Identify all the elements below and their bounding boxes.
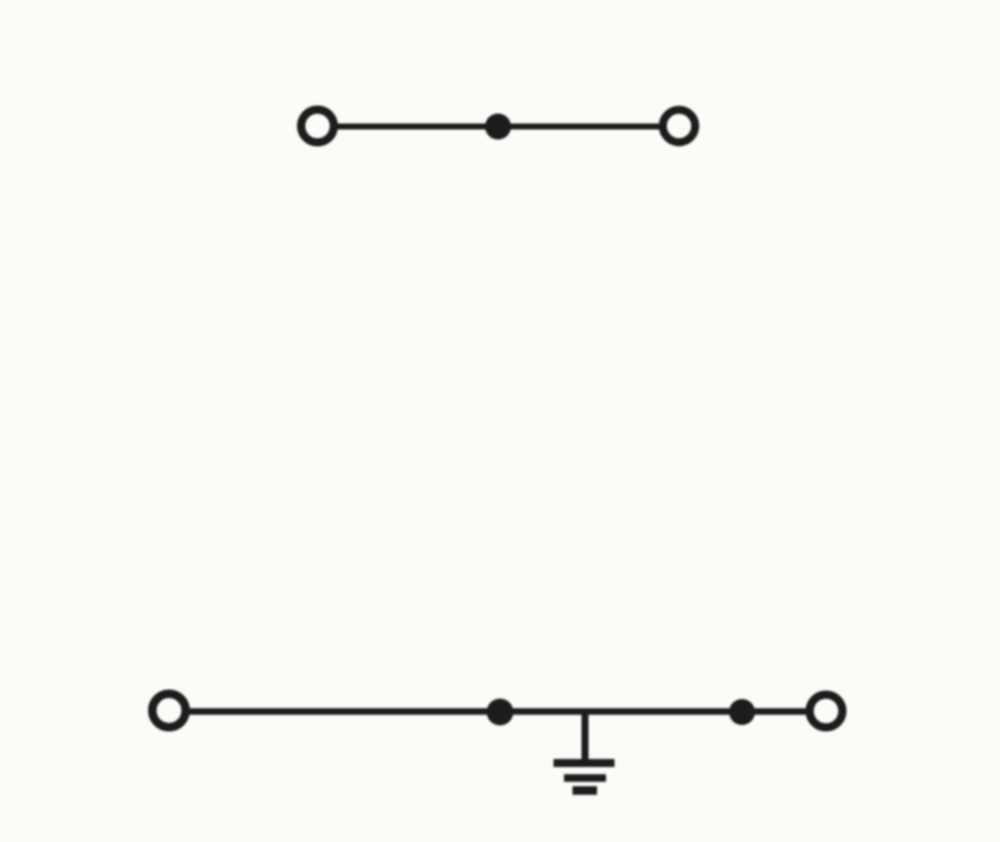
wire (lower level conductor) — [186, 708, 809, 715]
terminal circle (upper right clamp) — [663, 110, 695, 142]
wire (upper level conductor) — [334, 124, 662, 130]
node (upper junction dot) — [485, 114, 511, 140]
node (lower junction dot left) — [487, 699, 514, 726]
terminal circle (upper left clamp) — [301, 110, 334, 143]
node (lower junction dot right) — [729, 699, 755, 725]
terminal circle (lower right clamp) — [810, 695, 843, 728]
ground — [554, 712, 615, 791]
terminal circle (lower left clamp) — [152, 694, 185, 727]
